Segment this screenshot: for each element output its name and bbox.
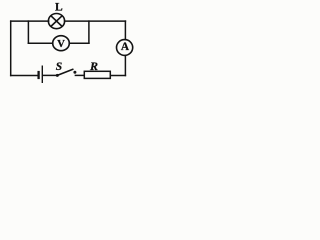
wire voltmeter branch left vertical	[27, 21, 29, 43]
wire left vertical	[10, 21, 12, 75]
wire battery to switch	[43, 74, 56, 76]
svg-text:A: A	[121, 41, 130, 53]
switch S left contact dot	[56, 74, 59, 77]
wire resistor to corner	[110, 75, 125, 77]
wire right vertical upper	[124, 21, 126, 39]
svg-text:L: L	[55, 2, 63, 14]
switch S lever	[57, 69, 73, 75]
svg-text:R: R	[89, 59, 98, 73]
wire switch to resistor	[75, 74, 84, 76]
wire voltmeter branch right horizontal	[69, 42, 89, 44]
battery: short thick plate (negative)	[37, 71, 39, 79]
switch S right contact dot	[73, 71, 76, 74]
lamp L	[48, 14, 64, 29]
ammeter A	[117, 40, 133, 56]
wire top-left horizontal	[11, 20, 49, 22]
wire voltmeter branch left horizontal	[28, 42, 52, 44]
wire right vertical lower	[124, 56, 126, 76]
wire bottom-left horizontal	[11, 75, 38, 77]
resistor R box	[84, 71, 110, 78]
svg-text:S: S	[56, 61, 62, 73]
wire voltmeter branch right vertical	[88, 21, 90, 43]
voltmeter V	[53, 36, 70, 51]
battery: long thin plate (positive)	[41, 66, 43, 84]
svg-text:V: V	[57, 39, 65, 50]
wire top-right horizontal	[65, 20, 126, 22]
